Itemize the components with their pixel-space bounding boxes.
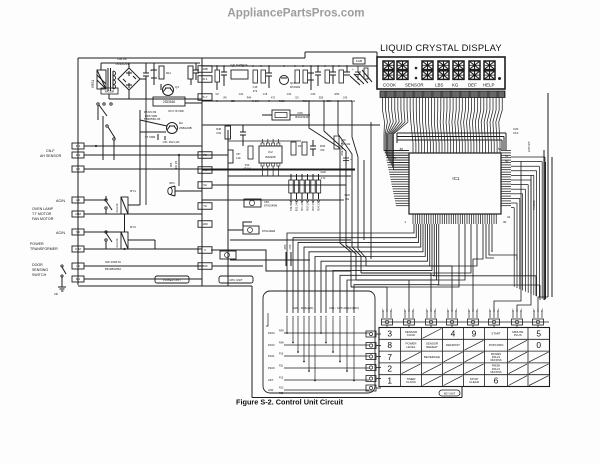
svg-text:R/W: R/W xyxy=(279,342,284,345)
svg-text:BEVERAGE: BEVERAGE xyxy=(424,355,440,359)
svg-text:R50: R50 xyxy=(283,244,287,249)
svg-text:C34: C34 xyxy=(287,93,292,96)
relay RY2 coil xyxy=(121,232,128,249)
resistor R19 xyxy=(325,70,330,83)
svg-text:DOOR: DOOR xyxy=(32,263,43,267)
svg-text:DTA904: DTA904 xyxy=(290,85,300,89)
svg-text:C15: C15 xyxy=(263,93,268,96)
svg-text:A/W: A/W xyxy=(268,388,274,392)
svg-text:R48: R48 xyxy=(216,127,221,131)
resistor R14 xyxy=(215,70,220,82)
wire middle vertical joins xyxy=(351,286,387,288)
wire diag links xyxy=(350,76,360,85)
resistor R17 xyxy=(295,70,300,83)
svg-text:C02: C02 xyxy=(339,315,342,320)
svg-text:AppliancePartsPros.com: AppliancePartsPros.com xyxy=(227,7,364,20)
svg-text:1GB: 1GB xyxy=(356,59,362,63)
wire transformer bottom xyxy=(100,88,102,89)
svg-text:C3K: C3K xyxy=(311,93,316,96)
wire IC1 right fan xyxy=(511,157,545,300)
wire VA row xyxy=(212,184,346,186)
svg-text:3.3k: 3.3k xyxy=(236,157,241,160)
resistor R15 xyxy=(253,70,258,83)
wire top frame xyxy=(78,57,305,59)
wire bottom rail xyxy=(252,397,462,399)
svg-text:Q1: Q1 xyxy=(175,85,179,89)
svg-text:80: 80 xyxy=(400,147,404,151)
wire 80x link xyxy=(212,265,263,267)
connector F-2 xyxy=(72,152,84,158)
svg-text:CN-F: CN-F xyxy=(46,149,55,153)
svg-text:R20: R20 xyxy=(286,315,289,320)
svg-text:SENSING: SENSING xyxy=(32,268,48,272)
wire ACIN H0 xyxy=(84,199,106,201)
wire right long vertical 1 xyxy=(547,93,549,297)
svg-text:R11: R11 xyxy=(166,71,171,75)
connector K-M xyxy=(72,246,84,252)
svg-text:R44: R44 xyxy=(247,97,252,100)
svg-text:2: 2 xyxy=(387,364,392,374)
keypad row connector boxes xyxy=(366,331,381,391)
wire stub sen xyxy=(340,199,344,201)
svg-text:9: 9 xyxy=(472,328,477,338)
svg-text:31: 31 xyxy=(507,215,511,219)
key matrix ground pin xyxy=(266,322,268,326)
lcd digits row 1 xyxy=(383,61,495,70)
resistor R21a xyxy=(364,68,368,79)
svg-text:SWITCH: SWITCH xyxy=(32,273,47,277)
lcd module outline xyxy=(377,57,505,89)
svg-text:RA110R: RA110R xyxy=(105,90,115,94)
svg-text:2SB123B: 2SB123B xyxy=(179,126,192,130)
svg-text:POWER: POWER xyxy=(30,242,44,246)
connector F2b xyxy=(198,152,212,159)
ic IC3 BA10324F xyxy=(272,110,290,120)
wire v box link xyxy=(211,250,351,271)
svg-text:C5K: C5K xyxy=(327,100,332,103)
svg-text:S-Y: S-Y xyxy=(202,95,207,99)
wire extra bottom bundle xyxy=(485,224,487,252)
svg-text:473: 473 xyxy=(271,97,276,100)
wire loop extensions xyxy=(437,284,540,286)
capacitor C11 xyxy=(145,68,147,73)
svg-text:0: 0 xyxy=(536,340,541,350)
power unit label box xyxy=(155,276,189,283)
connector 80X xyxy=(198,263,212,270)
power transformer T1 primary xyxy=(97,70,106,89)
zener ZD5 xyxy=(310,66,312,73)
svg-text:RD5 VRR: RD5 VRR xyxy=(145,114,157,118)
wire switch drop xyxy=(102,124,104,160)
wire F-1 to bus xyxy=(84,145,202,147)
svg-text:K-M: K-M xyxy=(75,247,81,251)
svg-text:FAN MOTOR: FAN MOTOR xyxy=(32,217,54,221)
transistor Q2 xyxy=(167,123,178,134)
resistor R13 xyxy=(188,66,193,79)
svg-text:47k: 47k xyxy=(320,148,325,152)
svg-text:C50: C50 xyxy=(288,244,292,249)
diode bridge DB1 xyxy=(118,68,140,90)
wire bridge output bottom xyxy=(128,90,130,99)
wire psu rail xyxy=(146,62,200,64)
svg-text:ZD5: ZD5 xyxy=(319,97,324,100)
wire mid vertical extra xyxy=(363,160,365,240)
svg-text:C04: C04 xyxy=(353,315,356,320)
svg-text:DTA144EM: DTA144EM xyxy=(262,229,275,233)
connector H0 xyxy=(72,197,84,203)
wire I-3 xyxy=(84,265,202,267)
wire matrix column feeds xyxy=(287,224,540,313)
resistor R18 xyxy=(303,70,308,83)
svg-text:1: 1 xyxy=(387,376,392,386)
svg-text:L51 162 L20: L51 162 L20 xyxy=(163,140,180,144)
svg-text:TRANSFORMER: TRANSFORMER xyxy=(30,247,58,251)
svg-text:DEF: DEF xyxy=(468,83,477,88)
svg-text:C15: C15 xyxy=(253,85,258,89)
wire x179 drop xyxy=(178,155,180,186)
svg-text:ACIN: ACIN xyxy=(56,231,65,235)
wire F-3 long xyxy=(84,168,355,170)
wire q2 row xyxy=(140,120,167,126)
resistor R41 xyxy=(248,146,253,159)
svg-text:C60: C60 xyxy=(264,200,269,204)
wire transformer top xyxy=(100,63,102,70)
svg-text:50: 50 xyxy=(505,159,509,163)
power transformer T1 core xyxy=(107,68,109,91)
wire 10M xyxy=(84,213,202,215)
svg-text:R32 10K: R32 10K xyxy=(308,201,310,210)
svg-text:F3: F3 xyxy=(76,167,80,171)
power transformer T1 secondary xyxy=(113,71,116,76)
transistor Q15 xyxy=(280,76,289,85)
lcd connector hatch band xyxy=(380,91,505,98)
resistor R47 xyxy=(228,150,233,163)
wire mid rail bottom xyxy=(202,100,352,102)
connector I-3 xyxy=(72,263,84,269)
capacitor C34 xyxy=(345,152,347,158)
resistor R38 xyxy=(302,142,307,155)
svg-text:Y0: Y0 xyxy=(203,204,207,208)
svg-text:C1K: C1K xyxy=(513,131,519,135)
svg-text:P101: P101 xyxy=(268,354,275,358)
ic IC2 BA6208 xyxy=(259,146,282,163)
svg-text:LBS: LBS xyxy=(435,83,443,88)
wire bridge right xyxy=(140,78,146,80)
capacitor C14 xyxy=(223,66,225,72)
switch S1a xyxy=(97,103,99,105)
svg-text:SEN: SEN xyxy=(344,194,349,197)
capacitor C38 xyxy=(312,140,314,146)
svg-text:8311B92MA: 8311B92MA xyxy=(105,267,121,271)
regulator block 2SD546 xyxy=(153,97,185,106)
svg-text:V: V xyxy=(204,248,206,252)
wire ry1 xyxy=(105,209,107,214)
capacitor C41 xyxy=(242,125,244,132)
svg-text:COOK: COOK xyxy=(407,333,416,337)
resistor R16 xyxy=(261,70,266,83)
wire long vertical x146 xyxy=(145,99,147,205)
svg-text:F-2: F-2 xyxy=(76,153,81,157)
capacitor C20 xyxy=(357,66,359,72)
svg-text:3.9k: 3.9k xyxy=(216,131,222,135)
wire right long vertical 2 xyxy=(551,157,553,297)
svg-text:BA10324F: BA10324F xyxy=(295,115,309,119)
wire mid h4 xyxy=(202,199,340,201)
svg-text:RA110R: RA110R xyxy=(116,238,119,247)
svg-text:10B: 10B xyxy=(202,67,207,71)
svg-text:R23: R23 xyxy=(303,315,306,320)
ic IC1 bottom pins xyxy=(413,214,496,224)
resistor R20a xyxy=(339,70,344,83)
capacitor C19 xyxy=(346,66,348,72)
svg-text:R22: R22 xyxy=(297,315,300,320)
svg-text:P20: P20 xyxy=(279,392,284,395)
resistor row R30-R35 xyxy=(289,180,293,193)
svg-text:C00: C00 xyxy=(325,315,328,320)
connector F3b xyxy=(198,167,212,174)
svg-text:10M: 10M xyxy=(75,212,81,216)
svg-text:H0: H0 xyxy=(76,198,80,202)
wire right long vertical 3 xyxy=(545,162,547,299)
svg-text:P103: P103 xyxy=(268,331,275,335)
wire cpu drop xyxy=(251,286,253,398)
svg-text:R21: R21 xyxy=(292,315,295,320)
connector F-3 xyxy=(72,166,84,172)
svg-text:START: START xyxy=(491,331,500,335)
svg-text:C00 - C05 220pF(50V): C00 - C05 220pF(50V) xyxy=(329,306,359,310)
svg-text:R/W: R/W xyxy=(279,330,284,333)
svg-text:T.T MOTOR: T.T MOTOR xyxy=(32,212,52,216)
ic IC1 body xyxy=(409,153,501,214)
svg-text:7: 7 xyxy=(387,352,392,362)
svg-text:10D: 10D xyxy=(202,222,208,226)
connector S-Y xyxy=(198,94,212,101)
resistor R37 xyxy=(291,142,296,155)
keypad cell labels xyxy=(387,328,548,385)
ic IC1 left pins xyxy=(385,151,410,206)
svg-text:I-3: I-3 xyxy=(76,264,80,268)
ic IC1 right pins xyxy=(501,151,511,206)
svg-text:104: 104 xyxy=(255,100,260,103)
door sensing switch S3 xyxy=(61,265,63,267)
svg-text:F-1: F-1 xyxy=(76,144,81,148)
wire mid vertical bus xyxy=(309,101,351,287)
switch S1b xyxy=(106,125,108,127)
wire psu mid xyxy=(145,84,147,99)
wire mid h1 xyxy=(202,124,380,126)
svg-text:R24: R24 xyxy=(308,315,311,320)
svg-text:RY1: RY1 xyxy=(130,189,136,193)
connector 10B xyxy=(198,66,212,73)
svg-text:6-1: 6-1 xyxy=(76,277,81,281)
wire K-M xyxy=(84,248,202,250)
svg-text:VA: VA xyxy=(203,183,207,187)
svg-text:684: 684 xyxy=(231,100,236,103)
wire mid low h xyxy=(230,239,351,241)
wire bus B xyxy=(227,130,229,286)
key unit label box xyxy=(439,390,460,396)
svg-text:LIQUID CRYSTAL DISPLAY: LIQUID CRYSTAL DISPLAY xyxy=(380,42,502,53)
svg-text:R33 10K: R33 10K xyxy=(313,201,315,210)
svg-text:R16: R16 xyxy=(279,100,284,103)
wire keypad column feeds xyxy=(387,161,548,311)
svg-text:61: 61 xyxy=(498,147,502,151)
svg-text:30: 30 xyxy=(503,220,507,224)
svg-text:2SD546: 2SD546 xyxy=(163,100,175,104)
svg-text:R-1: R-1 xyxy=(203,77,208,81)
keypad matrix table xyxy=(379,328,550,387)
svg-text:C01: C01 xyxy=(332,315,335,320)
svg-text:A/W-TMP: A/W-TMP xyxy=(528,141,531,152)
cpu unit label box xyxy=(219,276,253,283)
svg-text:R3K: R3K xyxy=(303,100,308,103)
connector VA xyxy=(198,182,212,189)
svg-text:R31 10K: R31 10K xyxy=(302,201,304,210)
svg-text:P102: P102 xyxy=(268,343,275,347)
wire N0 xyxy=(84,231,121,233)
relay RY1 coil xyxy=(121,197,128,214)
svg-text:R26: R26 xyxy=(320,315,323,320)
wire mid rail top xyxy=(202,65,377,67)
svg-text:POPCORN: POPCORN xyxy=(489,343,504,347)
transistor block Q20 xyxy=(244,199,261,207)
svg-text:473: 473 xyxy=(253,89,258,93)
svg-text:CLOCK: CLOCK xyxy=(406,380,416,384)
svg-text:C03: C03 xyxy=(346,315,349,320)
svg-text:R25: R25 xyxy=(314,315,317,320)
connector 10M xyxy=(72,211,84,217)
transistor Q1 xyxy=(163,85,174,96)
svg-text:BA6208: BA6208 xyxy=(266,155,276,159)
resistor R48 xyxy=(225,126,231,139)
svg-text:POWER UNIT: POWER UNIT xyxy=(163,278,181,282)
svg-text:SP1: SP1 xyxy=(169,181,175,185)
svg-text:D2: D2 xyxy=(179,121,183,125)
svg-text:F2: F2 xyxy=(203,153,207,157)
svg-text:RY2: RY2 xyxy=(130,225,136,229)
svg-text:C45: C45 xyxy=(343,97,348,100)
wire right long vertical 4 xyxy=(543,150,545,300)
svg-text:C5?: C5? xyxy=(236,153,241,156)
svg-text:A/W: A/W xyxy=(341,139,346,142)
svg-text:R13: R13 xyxy=(279,387,284,390)
keypad top connector symbols xyxy=(381,309,549,328)
wire power unit bottom xyxy=(78,285,252,287)
wire mid h3 xyxy=(228,175,351,177)
connector N0 xyxy=(72,229,84,235)
svg-text:51: 51 xyxy=(505,154,509,158)
connector V xyxy=(198,247,212,254)
svg-text:CLEAR: CLEAR xyxy=(469,380,479,384)
svg-text:8: 8 xyxy=(387,340,392,350)
svg-text:COOK: COOK xyxy=(383,83,396,88)
svg-text:3: 3 xyxy=(387,328,392,338)
wire bus A xyxy=(201,58,203,286)
connector Y0 xyxy=(198,203,212,210)
ground xyxy=(61,283,63,287)
svg-text:PLUS: PLUS xyxy=(514,333,522,337)
lcd digits row 2 xyxy=(383,71,501,80)
svg-text:AH SENSOR: AH SENSOR xyxy=(40,154,62,158)
connector R-1 xyxy=(198,76,212,83)
capacitor C18 xyxy=(332,66,334,72)
svg-text:OVEN LAMP: OVEN LAMP xyxy=(32,207,54,211)
junction dots strip xyxy=(216,65,218,67)
svg-text:DEFROST: DEFROST xyxy=(446,343,460,347)
svg-text:4.7k: 4.7k xyxy=(321,177,326,180)
connector 10D xyxy=(198,221,212,228)
svg-text:SENSOR: SENSOR xyxy=(405,83,424,88)
transistor block Q22 xyxy=(220,251,236,259)
svg-text:KG: KG xyxy=(452,83,459,88)
wire 6-1 xyxy=(84,278,202,280)
svg-text:AKT: AKT xyxy=(268,378,274,382)
capacitor C16 xyxy=(268,66,270,73)
fuse box RA110R xyxy=(101,88,118,94)
svg-text:PW-TMP: PW-TMP xyxy=(291,201,293,211)
svg-text:D5 0.78 VRR: D5 0.78 VRR xyxy=(168,109,183,113)
svg-text:80X: 80X xyxy=(202,264,207,268)
svg-text:P1: P1 xyxy=(393,156,397,160)
wire ry2 xyxy=(105,241,107,249)
resistor R11 xyxy=(159,66,164,79)
svg-text:4P 1M: 4P 1M xyxy=(243,168,250,171)
svg-text:100 VR: 100 VR xyxy=(175,161,178,170)
key matrix enclosure xyxy=(263,291,375,393)
ic GT1 MA8910A xyxy=(231,70,248,79)
svg-text:6: 6 xyxy=(494,376,499,386)
wire mid h1b xyxy=(228,140,301,142)
svg-text:4: 4 xyxy=(451,328,456,338)
svg-text:REHEAT: REHEAT xyxy=(426,345,438,349)
wire bus LCD to IC1 comb xyxy=(383,98,503,170)
svg-text:R20 - R26(220): R20 - R26(220) xyxy=(293,306,314,310)
wire bridge output top xyxy=(128,63,130,68)
wire F-2 to bus xyxy=(84,154,228,156)
connector 6-1 xyxy=(72,276,84,282)
svg-text:5: 5 xyxy=(536,328,541,338)
transistor block Q21 xyxy=(243,226,259,234)
svg-text:IC2: IC2 xyxy=(268,150,273,154)
svg-text:P100: P100 xyxy=(268,366,275,370)
svg-text:Figure S-2. Control Unit Circu: Figure S-2. Control Unit Circuit xyxy=(236,398,344,407)
svg-text:N0: N0 xyxy=(76,230,80,234)
wire left frame xyxy=(77,58,79,285)
svg-text:+: + xyxy=(352,67,354,71)
svg-text:DTA104EM: DTA104EM xyxy=(264,204,277,208)
svg-text:R34 10K: R34 10K xyxy=(319,201,321,210)
svg-text:P-MODE: P-MODE xyxy=(533,200,536,210)
svg-text:R43 10k: R43 10k xyxy=(341,143,351,146)
svg-text:MUFFINS: MUFFINS xyxy=(490,359,501,362)
svg-text:ACIN: ACIN xyxy=(56,199,65,203)
svg-text:VRS1: VRS1 xyxy=(91,80,95,89)
svg-text:MUFFINS: MUFFINS xyxy=(490,371,501,374)
connector F-1 xyxy=(72,143,84,149)
wire mid h2 xyxy=(202,169,355,171)
svg-text:RA110R: RA110R xyxy=(116,203,119,212)
svg-text:R5K: R5K xyxy=(335,93,340,96)
svg-text:IC1: IC1 xyxy=(452,176,460,181)
connector J1 top xyxy=(353,58,365,64)
svg-text:R11: R11 xyxy=(279,365,284,368)
svg-text:HELP: HELP xyxy=(483,83,495,88)
zener diode D11 xyxy=(153,63,155,70)
capacitor C17 xyxy=(317,66,319,72)
svg-text:DA-06: DA-06 xyxy=(117,57,126,61)
svg-text:C44: C44 xyxy=(239,93,244,96)
capacitor C12 xyxy=(195,63,197,70)
